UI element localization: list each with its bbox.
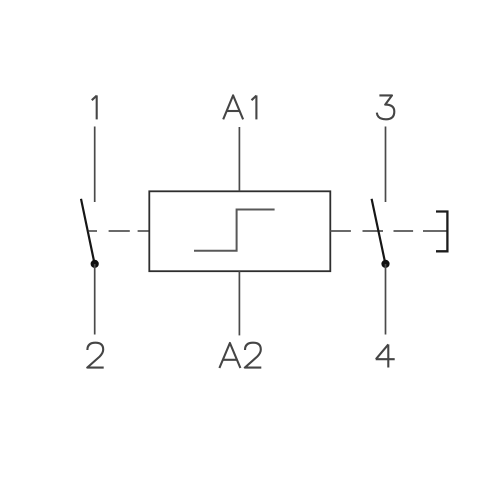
terminal label A1 [223, 95, 256, 119]
wire from contact to terminal 2 [94, 264, 96, 335]
wire from coil box to A2 [238, 271, 240, 335]
contact blade of pole 1-2 [81, 199, 94, 263]
junction dot of pole 3-4 [381, 260, 389, 268]
junction dot of pole 1-2 [91, 260, 99, 268]
terminal label 1 [92, 95, 97, 119]
coil box (impulse relay) [149, 191, 330, 271]
terminal label A2 [219, 343, 261, 368]
wire from A1 to coil box [238, 127, 240, 191]
terminal label 4 [376, 344, 395, 367]
dashed mechanical link, right section [330, 230, 447, 232]
wire from terminal 1 to contact [94, 127, 96, 203]
terminal label 2 [87, 343, 104, 368]
wire from terminal 3 to contact [385, 127, 387, 203]
contact blade of pole 3-4 [372, 199, 386, 263]
wire from contact to terminal 4 [385, 264, 387, 335]
terminal label 3 [377, 95, 395, 119]
actuator bracket [436, 212, 447, 252]
step function symbol [194, 210, 275, 251]
dashed mechanical link, left section [89, 230, 150, 232]
